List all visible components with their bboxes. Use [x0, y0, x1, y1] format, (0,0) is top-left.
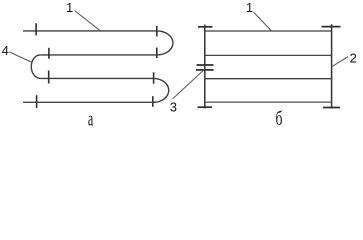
weld tick row 4 right [152, 96, 154, 107]
right header pipe [331, 24, 333, 108]
svg-text:а: а [88, 107, 94, 130]
svg-text:4: 4 [2, 43, 9, 58]
pipe row 3 [40, 77, 153, 79]
pipe row 4 [23, 101, 153, 103]
union coupling lower dash [196, 69, 214, 71]
return bend left [31, 55, 40, 79]
leader line for label 3 [173, 69, 205, 99]
weld tick row 3 right [153, 72, 155, 83]
leader line for label 4 [10, 52, 33, 63]
weld tick row 2 left [48, 48, 50, 59]
union coupling upper dash [197, 64, 214, 66]
figure a: serpentine coil [23, 23, 173, 108]
return bend bottom right [153, 78, 169, 102]
flange bottom right [323, 107, 340, 109]
pipe row 4 (fig b) [205, 101, 332, 103]
pipe row 1 [23, 30, 157, 32]
pipe row 1 (fig b) [205, 30, 332, 32]
leader line for label 1 (fig a) [75, 11, 100, 31]
weld tick row 4 left [36, 95, 38, 108]
weld tick row 1 left [35, 23, 37, 35]
flange bottom left [198, 106, 213, 108]
leader line for label 1 (fig b) [254, 12, 272, 31]
weld tick row 1 right [156, 26, 158, 37]
flange top left [198, 26, 213, 28]
svg-text:3: 3 [170, 99, 177, 114]
svg-text:2: 2 [350, 51, 357, 66]
return bend top right [157, 31, 173, 55]
pipe row 2 [40, 54, 157, 56]
leader line for label 2 [332, 57, 348, 67]
weld tick row 3 left [48, 71, 50, 84]
svg-text:1: 1 [246, 0, 253, 15]
weld tick row 2 right [156, 48, 158, 59]
figure b: pipe register [196, 24, 341, 108]
flange top right [322, 26, 341, 28]
pipe row 3 (fig b) [205, 78, 332, 80]
pipe row 2 (fig b) [205, 54, 332, 56]
left header pipe [204, 25, 206, 109]
svg-text:б: б [276, 108, 283, 130]
svg-text:1: 1 [66, 0, 73, 15]
